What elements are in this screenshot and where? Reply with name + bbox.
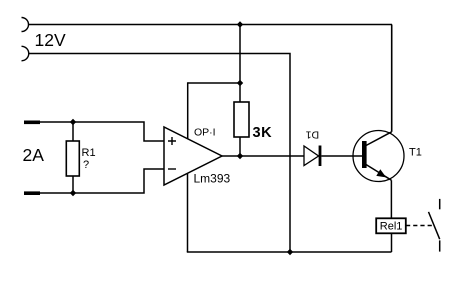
wire op-amp V+ pin vertical [187,82,189,139]
dashed link relay to contact [406,225,434,227]
transistor T1 emitter lead [366,165,391,181]
connector pin bottom (12V -) [22,46,29,61]
contact blade [429,212,440,239]
transistor T1 base bar [362,141,367,168]
svg-text:Rel1: Rel1 [380,221,403,233]
junction R1 bottom [70,190,76,196]
diode D1 cathode bar [319,146,322,167]
svg-text:R1: R1 [82,147,96,159]
wire op-amp output to diode [222,155,304,157]
contact top terminal [439,199,441,209]
transistor T1 collector lead [366,132,392,146]
wire R1 bottom lead [72,176,74,193]
wire top +12V rail [29,24,393,26]
wire R1 top lead [72,122,74,141]
op-amp - input mark [168,168,176,170]
svg-text:OP·I: OP·I [194,127,216,139]
junction bottom rail / 12V return [287,249,293,255]
svg-text:Lm393: Lm393 [194,172,231,186]
wire bottom ground rail [187,251,392,253]
transistor T1 circle [353,131,404,182]
transistor T1 emitter arrow [376,169,386,177]
junction V+ / 3K node [237,80,243,86]
svg-text:12V: 12V [35,30,66,50]
relay Rel1 coil box [376,218,406,233]
junction R1 top [70,119,76,125]
wire diode to base [321,155,362,157]
terminal bar 2A top [24,121,40,125]
svg-text:2A: 2A [23,145,45,165]
wire 3K bottom lead [239,137,241,156]
svg-text:D1: D1 [306,129,320,141]
svg-text:T1: T1 [409,147,422,159]
wire 2A top to +input [40,122,164,141]
wire op-amp V- pin vertical [187,174,189,252]
wire emitter to relay [390,180,392,218]
wire second 12V rail [29,54,291,253]
op-amp U1 triangle [164,127,222,185]
wire vertical supply to 3K [239,25,241,103]
op-amp + input mark [168,137,176,145]
wire relay to ground rail [391,233,393,252]
resistor R1 body [66,141,79,176]
diode D1 triangle [304,146,319,166]
resistor 3K body [234,102,249,137]
connector pin top (12V +) [22,18,29,32]
wire right vertical (collector feed) [391,25,393,132]
junction output / 3K pull-up [237,153,243,159]
contact bottom terminal [439,240,441,251]
svg-text:3K: 3K [253,125,273,141]
wire 2A bottom to -input [40,169,164,193]
svg-text:?: ? [83,159,89,171]
wire op-amp V+ pin horizontal [188,82,240,84]
terminal bar 2A bottom [24,191,40,195]
junction top rail / 3K branch [237,21,243,27]
